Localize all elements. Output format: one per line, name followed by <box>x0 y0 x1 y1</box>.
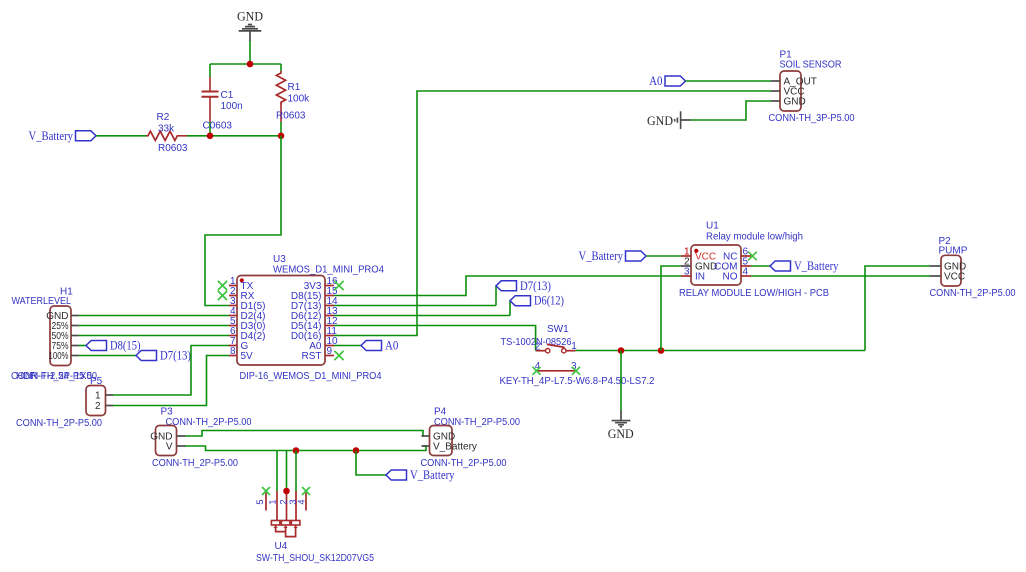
svg-text:R0603: R0603 <box>158 143 188 154</box>
svg-text:GND: GND <box>647 113 673 128</box>
svg-text:CONN-TH_2P-P5.00: CONN-TH_2P-P5.00 <box>930 288 1016 299</box>
svg-text:100n: 100n <box>221 101 243 112</box>
net flag D7(13) mid <box>495 286 497 306</box>
P4 pin GND <box>422 435 430 437</box>
U3 pin 5 D3(0) <box>229 316 266 332</box>
svg-text:100%: 100% <box>49 351 69 362</box>
U3 pin 9 RST <box>302 346 335 362</box>
wire H1 25% to U3 pin 5 <box>79 325 230 327</box>
H1 pin 25% <box>52 321 79 332</box>
wire P3 V to P4 V_Battery <box>186 446 427 451</box>
wire H1 50% to U3 pin 6 <box>79 335 230 337</box>
capacitor C1 <box>202 64 219 136</box>
U4 contact box 1 <box>271 521 280 526</box>
U4 wiper arrows <box>273 525 277 528</box>
net flag V_Battery left <box>76 131 97 141</box>
wire to U4 pin 2 <box>286 451 288 492</box>
junction divider left <box>207 133 214 140</box>
no-connect X U3 pin 9 <box>334 351 343 360</box>
wire A0 flag to P1 A_OUT <box>686 80 772 82</box>
wire to V_Battery flag bottom <box>356 451 386 476</box>
U3 pin 15 D8(15) <box>291 286 338 302</box>
resistor R2 <box>146 131 187 140</box>
svg-text:KEY-TH_4P-L7.5-W6.8-P4.50-LS7.: KEY-TH_4P-L7.5-W6.8-P4.50-LS7.2 <box>500 376 655 387</box>
wire GND drop <box>620 351 622 411</box>
U4 common link right <box>286 527 296 537</box>
H1 pin 50% <box>52 331 79 342</box>
pin 1 indicator dot U3 <box>240 278 244 282</box>
svg-text:D8(15): D8(15) <box>110 338 141 353</box>
no-connect X U3 pin 16 <box>334 281 343 290</box>
P5 pin 2 <box>106 405 114 407</box>
P1 pin VCC <box>771 90 780 92</box>
power symbol GND bottom <box>608 410 634 441</box>
pin 1 indicator dot U1 <box>694 249 698 253</box>
switch U4 pin 4 <box>305 491 307 511</box>
H1 pin 100% <box>49 351 79 362</box>
svg-text:9: 9 <box>327 346 333 357</box>
wire P5 pin2 to U3 5V <box>113 356 229 406</box>
svg-text:R1: R1 <box>288 82 301 93</box>
connector P1 body <box>780 71 801 111</box>
U1 pin 1 VCC <box>681 246 716 262</box>
svg-text:SW-TH_SHOU_SK12D07VG5: SW-TH_SHOU_SK12D07VG5 <box>256 553 374 564</box>
junction top <box>247 61 254 68</box>
P3 pin V <box>177 445 186 447</box>
wire U1 GND down <box>661 266 681 351</box>
U3 pin 12 D5(14) <box>291 316 338 332</box>
net flag V_Battery at U1 pin 1 <box>626 251 647 261</box>
U3 pin 1 TX <box>229 276 254 292</box>
U3 pin 2 RX <box>229 286 255 302</box>
U1 pin 6 NC <box>723 246 751 262</box>
svg-text:1: 1 <box>268 499 278 504</box>
wire top rail C1-R1 <box>210 63 281 65</box>
wire SW1 pin1 to GND rail <box>575 350 865 352</box>
wire H1 100% to flag <box>79 355 137 357</box>
net flag D8(15) <box>86 341 107 351</box>
wire P5 pin1 to U3 G <box>113 346 229 396</box>
P5 pin 1 <box>106 394 114 396</box>
svg-text:V_Battery: V_Battery <box>794 258 839 273</box>
net flag A0 at P1 <box>665 76 686 86</box>
SW1 contact circle left <box>546 349 550 353</box>
svg-text:8: 8 <box>230 346 236 357</box>
wire divider output to U3 pin 3 <box>205 136 281 306</box>
svg-text:4: 4 <box>296 499 306 504</box>
U3 pin 10 A0 <box>309 336 338 352</box>
svg-text:Relay module low/high: Relay module low/high <box>706 231 803 242</box>
svg-text:V_Battery: V_Battery <box>433 442 477 453</box>
svg-text:2: 2 <box>95 401 101 412</box>
svg-text:V_Battery: V_Battery <box>29 128 74 143</box>
wire GND to P1 GND <box>691 101 772 120</box>
junction relay GND <box>658 347 665 354</box>
wire U3 pin 14 to D7 flag <box>334 305 496 307</box>
svg-text:D7(13): D7(13) <box>520 278 551 293</box>
junction U4 pin 2 <box>283 488 290 495</box>
wire P3 GND to P4 GND <box>186 431 424 437</box>
svg-text:U1: U1 <box>706 221 719 232</box>
net flag A0 at U3 pin 10 <box>334 345 361 347</box>
junction V rail at U4 pin 3 <box>293 447 300 454</box>
H1 pin GND <box>46 311 78 322</box>
svg-text:CONN-TH_2P-P5.00: CONN-TH_2P-P5.00 <box>16 418 102 429</box>
P1 pin GND <box>771 100 780 102</box>
SW1 pins 4-3 bar <box>536 370 577 372</box>
U3 pin 3 D1(5) <box>229 296 266 312</box>
svg-text:IN: IN <box>695 272 705 283</box>
svg-text:NO: NO <box>723 272 738 283</box>
wire U3 pin 13 to D6 flag <box>334 315 510 317</box>
svg-text:CONN-TH_3P-P5.00: CONN-TH_3P-P5.00 <box>769 113 855 124</box>
no-connect X U3 pin 2 <box>218 291 227 300</box>
svg-text:CONN-TH_2P-P5.00: CONN-TH_2P-P5.00 <box>11 371 97 382</box>
SW1 contact circle right <box>562 349 566 353</box>
wire GND stub down <box>249 41 251 64</box>
svg-text:CONN-TH_2P-P5.00: CONN-TH_2P-P5.00 <box>152 458 238 469</box>
svg-text:SOIL SENSOR: SOIL SENSOR <box>780 60 842 71</box>
svg-text:D7(13): D7(13) <box>160 348 191 363</box>
connector P5 body <box>86 386 106 416</box>
connector P4 body <box>430 426 453 456</box>
svg-text:2: 2 <box>279 499 289 504</box>
svg-text:33k: 33k <box>158 124 175 135</box>
wire U1 COM to flag <box>751 265 770 267</box>
svg-text:GND: GND <box>608 426 634 441</box>
no-connect X SW1 pin 4 <box>533 367 541 375</box>
U4 common link left <box>276 527 286 532</box>
svg-text:U4: U4 <box>275 541 288 552</box>
U4 contact box 2 <box>281 521 290 526</box>
junction V rail at flag drop <box>353 447 360 454</box>
junction GND drop <box>618 347 625 354</box>
svg-text:R2: R2 <box>157 112 170 123</box>
wire U3 D0 to P1 VCC <box>334 91 771 336</box>
U3 pin 11 D0(16) <box>291 326 337 342</box>
switch U4 pin 3 <box>295 491 297 521</box>
connector P3 body <box>156 426 177 456</box>
svg-text:V_Battery: V_Battery <box>410 467 455 482</box>
svg-text:4: 4 <box>743 266 749 277</box>
P2 pin GND <box>930 265 941 267</box>
svg-text:V_Battery: V_Battery <box>579 248 624 263</box>
svg-text:WEMOS_D1_MINI_PRO4: WEMOS_D1_MINI_PRO4 <box>273 264 384 275</box>
P1 pin A_OUT <box>771 80 780 82</box>
relay U1 body <box>691 245 741 285</box>
wire U1 IN to U3 D8 <box>334 276 681 296</box>
svg-text:SW1: SW1 <box>547 324 569 335</box>
svg-text:2: 2 <box>535 342 541 353</box>
wire to U4 pin 3 <box>295 451 297 492</box>
H1 pin 75% <box>52 341 79 352</box>
U3 pin 16 3V3 <box>304 276 338 292</box>
connector H1 body <box>50 306 71 366</box>
junction divider right <box>278 133 285 140</box>
net flag D6(12) <box>509 301 511 316</box>
P3 pin GND <box>177 435 186 437</box>
svg-text:DIP-16_WEMOS_D1_MINI_PRO4: DIP-16_WEMOS_D1_MINI_PRO4 <box>240 371 382 382</box>
svg-text:5V: 5V <box>241 351 254 362</box>
power symbol GND top <box>237 9 263 41</box>
svg-text:RELAY MODULE LOW/HIGH - PCB: RELAY MODULE LOW/HIGH - PCB <box>679 288 829 299</box>
P2 pin VCC <box>930 275 941 277</box>
svg-text:100k: 100k <box>288 94 311 105</box>
switch U4 pin 5 <box>265 491 267 511</box>
power symbol GND sideways <box>647 111 691 129</box>
no-connect X U3 pin 1 <box>218 281 227 290</box>
wire H1 GND to U3 pin 4 <box>79 315 230 317</box>
wire H1 75% to flag <box>79 345 87 347</box>
IC U3 body <box>237 276 325 366</box>
svg-text:RST: RST <box>302 351 322 362</box>
no-connect X U1 pin 6 <box>748 252 757 261</box>
svg-text:A0: A0 <box>649 73 662 88</box>
wire to U4 pin 1 <box>276 451 278 492</box>
svg-text:3: 3 <box>684 266 690 277</box>
U1 pin 3 IN <box>681 266 705 282</box>
wire V_Battery to R2 <box>96 135 146 137</box>
svg-text:C0603: C0603 <box>203 121 233 132</box>
svg-text:CONN-TH_2P-P5.00: CONN-TH_2P-P5.00 <box>421 458 507 469</box>
net flag V_Battery at U1 COM <box>770 261 791 271</box>
svg-text:GND: GND <box>237 9 263 24</box>
svg-text:R0603: R0603 <box>276 111 306 122</box>
svg-text:GND: GND <box>784 97 806 108</box>
wire R2 to divider rail <box>187 135 281 137</box>
U1 pin 2 GND <box>681 256 717 272</box>
svg-text:D6(12): D6(12) <box>534 293 564 308</box>
U4 contact box 3 <box>291 521 300 526</box>
svg-text:5: 5 <box>255 499 265 504</box>
svg-text:CONN-TH_2P-P5.00: CONN-TH_2P-P5.00 <box>166 417 252 428</box>
switch SW1 pin 2 <box>536 350 545 352</box>
svg-text:A0: A0 <box>385 338 398 353</box>
SW1 switch arm <box>547 344 565 347</box>
svg-text:VCC: VCC <box>944 272 965 283</box>
wire flag to U1 VCC <box>646 255 681 257</box>
switch SW1 pin 1 <box>567 350 576 352</box>
no-connect X SW1 pin 3 <box>572 367 580 375</box>
switch U4 pin 2 <box>286 491 288 521</box>
connector P2 body <box>941 255 961 286</box>
net flag V_Battery bottom <box>386 470 407 480</box>
resistor R1 <box>276 64 285 136</box>
U1 pin 5 COM <box>714 256 751 272</box>
wire U3 pin 12 to SW1 pin 2 <box>334 326 536 351</box>
no-connect X U4 pin 5 <box>262 487 270 495</box>
svg-text:1: 1 <box>95 391 101 402</box>
no-connect X U4 pin 4 <box>302 487 310 495</box>
U3 pin 7 G <box>229 336 249 352</box>
wire U1 NO to P2 VCC <box>751 275 930 277</box>
U3 pin 14 D7(13) <box>291 296 338 312</box>
svg-text:V: V <box>166 442 173 453</box>
U1 pin 4 NO <box>723 266 752 282</box>
U3 pin 8 5V <box>229 346 253 362</box>
U3 pin 13 D6(12) <box>291 306 338 322</box>
svg-text:C1: C1 <box>221 90 234 101</box>
U3 pin 4 D2(4) <box>229 306 266 322</box>
switch U4 pin 1 <box>276 491 278 521</box>
P4 pin V_Battery <box>422 445 430 447</box>
wire P2 GND to switch rail <box>865 266 930 351</box>
net flag D7(13) at H1 <box>136 351 157 361</box>
U3 pin 6 D4(2) <box>229 326 266 342</box>
